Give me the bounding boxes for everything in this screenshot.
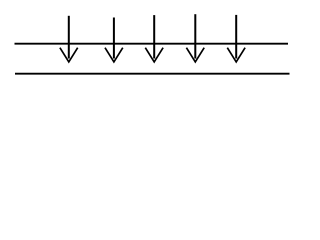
load arrow 3 head	[145, 48, 163, 62]
beam top line	[15, 43, 289, 45]
beam bottom line	[15, 73, 290, 75]
load arrow 2 shaft	[113, 18, 115, 59]
load arrow 4 head	[186, 48, 204, 62]
load arrow 5 shaft	[235, 15, 237, 59]
load arrow 1 shaft	[68, 16, 70, 59]
load arrow 3 shaft	[153, 15, 155, 58]
load arrow 4 shaft	[194, 14, 196, 58]
load arrow 2 head	[105, 48, 123, 62]
load arrow 5 head	[227, 48, 245, 62]
load arrow 1 head	[60, 48, 78, 62]
